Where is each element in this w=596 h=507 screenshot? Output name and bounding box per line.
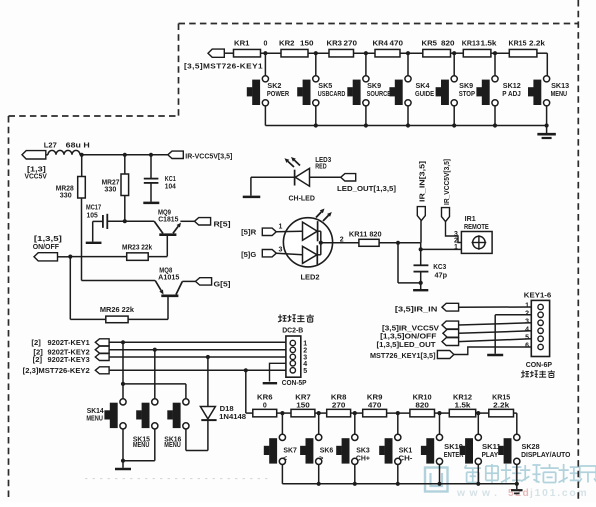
- svg-text:6: 6: [525, 343, 529, 350]
- svg-text:ENTER: ENTER: [444, 452, 464, 459]
- svg-text:330: 330: [104, 187, 116, 194]
- svg-text:2.2k: 2.2k: [529, 41, 545, 48]
- svg-text:KR6: KR6: [257, 395, 273, 402]
- svg-text:1: 1: [454, 244, 458, 251]
- svg-text:470: 470: [368, 402, 382, 409]
- svg-text:3: 3: [525, 318, 529, 325]
- svg-text:KR3: KR3: [327, 41, 343, 48]
- svg-text:SK9: SK9: [367, 83, 381, 90]
- svg-text:CH-: CH-: [398, 455, 413, 462]
- svg-text:MR27: MR27: [102, 179, 120, 186]
- svg-text:5: 5: [303, 368, 307, 375]
- svg-text:IR_IN[3,5]: IR_IN[3,5]: [420, 161, 427, 202]
- svg-text:[1,3,5]LED_OUT: [1,3,5]LED_OUT: [377, 342, 437, 349]
- svg-text:SK11: SK11: [482, 444, 501, 451]
- svg-text:KR11 820: KR11 820: [349, 232, 382, 239]
- svg-text:0: 0: [263, 402, 267, 409]
- svg-text:KR12: KR12: [453, 395, 472, 402]
- svg-text:1: 1: [279, 224, 283, 231]
- svg-text:9202T-KEY2: 9202T-KEY2: [48, 349, 90, 356]
- svg-text:9202T-KEY3: 9202T-KEY3: [48, 357, 90, 364]
- svg-text:MR26 22k: MR26 22k: [100, 307, 134, 314]
- svg-text:820: 820: [441, 41, 455, 48]
- svg-text:C1815: C1815: [158, 217, 178, 224]
- svg-text:3: 3: [279, 246, 283, 253]
- svg-text:D18: D18: [220, 406, 234, 413]
- svg-text:>: >: [319, 456, 323, 463]
- svg-text:VCC5V: VCC5V: [25, 174, 48, 181]
- svg-text:KR10: KR10: [413, 395, 432, 402]
- svg-text:MENU: MENU: [164, 442, 181, 449]
- svg-text:P ADJ: P ADJ: [502, 91, 521, 98]
- svg-text:RED: RED: [315, 163, 326, 170]
- svg-text:1.5k: 1.5k: [481, 41, 497, 48]
- svg-text:2: 2: [303, 348, 307, 355]
- svg-text:CON-6P: CON-6P: [526, 362, 553, 369]
- svg-text:GUIDE: GUIDE: [415, 91, 434, 98]
- svg-text:R[5]: R[5]: [214, 220, 232, 229]
- svg-text:[3,5]MST726-KEY1: [3,5]MST726-KEY1: [184, 64, 263, 71]
- svg-text:L27: L27: [44, 143, 57, 150]
- svg-text:[3,5]IR_VCC5V: [3,5]IR_VCC5V: [382, 325, 439, 332]
- svg-text:j101.com: j101.com: [529, 488, 588, 499]
- svg-text:5: 5: [525, 334, 529, 341]
- svg-text:CH-LED: CH-LED: [289, 196, 315, 203]
- svg-text:SK13: SK13: [551, 83, 569, 90]
- svg-text:2.2k: 2.2k: [493, 402, 509, 409]
- svg-text:4: 4: [303, 361, 307, 368]
- svg-text:A1015: A1015: [158, 275, 179, 282]
- svg-text:KC3: KC3: [433, 264, 446, 271]
- svg-text:KR7: KR7: [295, 395, 311, 402]
- svg-text:SK10: SK10: [444, 444, 463, 451]
- svg-text:LED2: LED2: [301, 274, 320, 281]
- svg-text:68u H: 68u H: [66, 143, 90, 150]
- svg-text:MQ9: MQ9: [158, 209, 171, 216]
- svg-text:MR23 22k: MR23 22k: [122, 244, 152, 251]
- svg-text:[1,3,5]: [1,3,5]: [34, 236, 62, 243]
- svg-text:G[5]: G[5]: [214, 280, 232, 289]
- svg-text:SK5: SK5: [318, 83, 332, 90]
- svg-text:2: 2: [340, 236, 344, 243]
- svg-text:CON-5P: CON-5P: [282, 380, 307, 387]
- svg-text:SK12: SK12: [503, 83, 521, 90]
- svg-text:SK28: SK28: [522, 444, 540, 451]
- svg-text:KR15: KR15: [509, 41, 527, 48]
- svg-text:IR1: IR1: [465, 216, 476, 223]
- svg-text:IR_VCC5V[3,5]: IR_VCC5V[3,5]: [444, 159, 451, 205]
- svg-text:STOP: STOP: [459, 91, 476, 98]
- svg-text:9202T-KEY1: 9202T-KEY1: [48, 340, 90, 347]
- svg-text:KR2: KR2: [279, 41, 295, 48]
- svg-text:[5]R: [5]R: [241, 230, 256, 237]
- svg-text:MST726_KEY1[3,5]: MST726_KEY1[3,5]: [370, 353, 436, 360]
- svg-text:820: 820: [415, 402, 429, 409]
- svg-text:4: 4: [525, 326, 529, 333]
- svg-text:MQ8: MQ8: [159, 267, 172, 274]
- svg-text:MENU: MENU: [551, 91, 568, 98]
- svg-text:150: 150: [300, 41, 314, 48]
- svg-text:POWER: POWER: [267, 91, 289, 98]
- svg-text:SK9: SK9: [459, 83, 473, 90]
- svg-text:www.: www.: [456, 488, 502, 499]
- svg-text:DC2-B: DC2-B: [282, 327, 303, 334]
- svg-text:KR9: KR9: [367, 395, 383, 402]
- svg-text:PLAY: PLAY: [482, 452, 499, 459]
- svg-text:IR-VCC5V[3,5]: IR-VCC5V[3,5]: [185, 153, 232, 160]
- svg-text:KC1: KC1: [165, 176, 176, 183]
- svg-text:1N4148: 1N4148: [219, 414, 246, 421]
- svg-text:270: 270: [344, 41, 358, 48]
- svg-text:KR1: KR1: [234, 41, 250, 48]
- svg-text:<: <: [283, 456, 287, 463]
- svg-text:[2]: [2]: [31, 340, 40, 347]
- svg-text:47p: 47p: [435, 273, 448, 280]
- svg-text:270: 270: [332, 402, 346, 409]
- svg-text:[1,3]: [1,3]: [27, 166, 46, 173]
- svg-text:ON/OFF: ON/OFF: [33, 244, 60, 251]
- svg-text:[2,3]MST726-KEY2: [2,3]MST726-KEY2: [23, 368, 90, 375]
- svg-text:CH+: CH+: [356, 455, 370, 462]
- svg-text:SK4: SK4: [416, 83, 430, 90]
- svg-text:SK14: SK14: [87, 408, 104, 415]
- svg-text:MC17: MC17: [86, 205, 101, 212]
- svg-text:USBCARD: USBCARD: [318, 91, 346, 98]
- svg-text:MENU: MENU: [133, 442, 150, 449]
- svg-text:0: 0: [264, 41, 268, 48]
- svg-text:104: 104: [165, 183, 176, 190]
- svg-text:SK3: SK3: [356, 447, 370, 454]
- svg-text:SOURCE: SOURCE: [367, 91, 392, 98]
- svg-text:KR8: KR8: [331, 395, 347, 402]
- svg-text:1.5k: 1.5k: [455, 402, 471, 409]
- svg-text:KR5: KR5: [422, 41, 438, 48]
- svg-text:KEY1-6: KEY1-6: [524, 292, 552, 299]
- svg-text:2: 2: [525, 310, 529, 317]
- svg-text:KR15: KR15: [492, 395, 510, 402]
- svg-text:[2]: [2]: [33, 357, 42, 364]
- svg-text:[3,5]IR_IN: [3,5]IR_IN: [395, 306, 438, 313]
- svg-text:DISPLAY/AUTO: DISPLAY/AUTO: [521, 452, 571, 459]
- svg-text:105: 105: [87, 213, 98, 220]
- svg-text:150: 150: [296, 402, 310, 409]
- svg-text:SK7: SK7: [283, 447, 297, 454]
- svg-text:[5]G: [5]G: [241, 252, 257, 259]
- svg-text:[2]: [2]: [33, 349, 42, 356]
- svg-text:KR13: KR13: [462, 41, 480, 48]
- svg-text:1: 1: [525, 303, 529, 310]
- svg-text:SK1: SK1: [399, 447, 413, 454]
- svg-text:REMOTE: REMOTE: [464, 224, 489, 231]
- svg-text:SK6: SK6: [320, 447, 334, 454]
- svg-text:[1,3,5]ON/OFF: [1,3,5]ON/OFF: [380, 334, 437, 341]
- svg-text:MENU: MENU: [86, 416, 103, 423]
- svg-text:KR4: KR4: [373, 41, 389, 48]
- svg-text:330: 330: [60, 193, 72, 200]
- svg-text:SK2: SK2: [267, 83, 281, 90]
- svg-text:LED_OUT[1,3,5]: LED_OUT[1,3,5]: [337, 186, 396, 193]
- svg-text:MR28: MR28: [56, 185, 74, 192]
- svg-text:470: 470: [390, 41, 404, 48]
